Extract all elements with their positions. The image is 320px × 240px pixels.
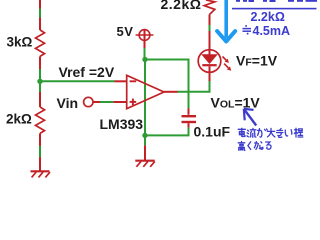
- wire R1 to node Vref: [39, 56, 41, 81]
- pin op-amp inverting input: [115, 80, 127, 82]
- node Vref junction dot: [37, 79, 42, 84]
- node 5V rail junction dot: [142, 57, 147, 62]
- wire Vin to op-amp: [93, 101, 127, 103]
- wire V+ down through op-amp to gnd node: [144, 60, 146, 136]
- svg-text:2.2kΩ: 2.2kΩ: [251, 10, 285, 24]
- svg-text:Vref =2V: Vref =2V: [59, 64, 115, 80]
- resistor R1 3kΩ: [36, 30, 45, 56]
- resistor R2 2kΩ: [36, 107, 45, 133]
- svg-text:0.1uF: 0.1uF: [194, 123, 231, 139]
- wire R2 to ground: [39, 133, 41, 171]
- ground middle: [135, 161, 155, 167]
- blue current arrow down: [217, 0, 235, 41]
- svg-text:4.5mA: 4.5mA: [253, 24, 291, 38]
- pin R2 top: [39, 92, 41, 107]
- wire cap bottom to gnd node: [145, 128, 189, 136]
- が: [258, 129, 268, 138]
- LED D1: [198, 50, 221, 73]
- blue Japanese annotation line1: 電流が大きい程: [238, 128, 303, 137]
- svg-text:2.2kΩ: 2.2kΩ: [161, 0, 202, 12]
- wire 5V rail to bypass cap: [145, 60, 189, 109]
- svg-text:2kΩ: 2kΩ: [6, 112, 32, 127]
- capacitor C1 0.1uF: [182, 116, 197, 122]
- op-amp U1 LM393: [127, 75, 164, 108]
- wire Vref horizontal: [40, 80, 115, 82]
- minus input symbol: [130, 80, 137, 82]
- ground left: [31, 171, 51, 177]
- 流: [247, 128, 256, 137]
- く: [248, 142, 251, 150]
- svg-text:VOL=1V: VOL=1V: [211, 94, 261, 110]
- る: [266, 142, 271, 149]
- 高: [238, 142, 245, 151]
- pin LED cathode: [209, 72, 211, 81]
- terminal Vin: [84, 97, 93, 106]
- node gnd junction dot: [142, 133, 147, 138]
- power symbol 5V: [136, 30, 154, 48]
- blue pointer arrow up-left: [244, 109, 256, 126]
- wire LED anode up: [209, 15, 211, 50]
- blue Japanese annotation line2: 高くなる: [238, 142, 271, 151]
- blue approx-equal symbol: [243, 26, 252, 34]
- wire gnd node down: [144, 135, 146, 145]
- blue formula numerator remnants (cut at top): [236, 0, 317, 2]
- き: [277, 129, 283, 138]
- plus input symbol: [130, 99, 137, 106]
- wire left branch top: [39, 0, 41, 30]
- 大: [267, 128, 275, 137]
- 程: [294, 128, 302, 137]
- svg-text:VF=1V: VF=1V: [236, 53, 278, 69]
- な: [254, 142, 263, 150]
- wire node Vref down: [39, 81, 41, 92]
- svg-text:Vin: Vin: [57, 95, 79, 111]
- pin C1 top: [188, 108, 190, 115]
- svg-text:LM393: LM393: [100, 116, 144, 132]
- resistor R3 2.2kΩ (cut at top): [204, 0, 215, 15]
- LED emission arrows: [223, 57, 232, 71]
- svg-text:3kΩ: 3kΩ: [7, 35, 33, 50]
- svg-text:5V: 5V: [117, 24, 134, 39]
- 電: [238, 128, 245, 136]
- wire 5V to rail: [144, 48, 146, 60]
- い: [285, 130, 292, 136]
- pin C1 bottom: [188, 123, 190, 127]
- pin op-amp output: [164, 91, 178, 93]
- blue fraction bar: [232, 8, 317, 10]
- wire output to LED cathode: [178, 81, 210, 92]
